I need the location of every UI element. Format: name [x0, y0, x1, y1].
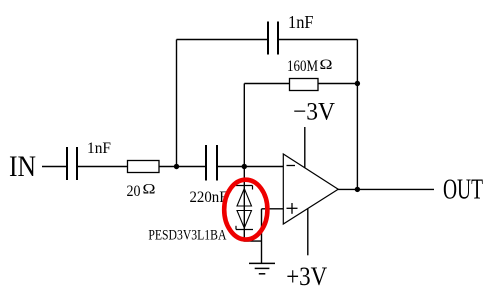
- wire feedback left vertical: [176, 40, 178, 167]
- wire C1 to R1: [77, 166, 128, 168]
- capacitor C1 1nF input: [67, 147, 77, 180]
- node junction A (feedback tap): [174, 164, 179, 169]
- ground: [249, 263, 275, 273]
- svg-text:1nF: 1nF: [288, 12, 314, 32]
- wire 160M branch left vertical: [243, 84, 245, 167]
- wire feedback right vertical: [356, 40, 358, 190]
- wire op-amp V- pin: [304, 127, 306, 168]
- diode D2 bottom (TVS) triangle: [237, 211, 252, 229]
- wire TVS bottom jog: [244, 230, 261, 242]
- wire R1 to C2: [159, 166, 206, 168]
- node junction D (output / feedback): [355, 187, 360, 192]
- svg-text:Ω: Ω: [320, 57, 333, 73]
- diode D1 top (TVS) triangle: [237, 189, 252, 207]
- svg-text:220nF: 220nF: [190, 189, 228, 206]
- resistor R1 20Ω: [128, 161, 160, 173]
- wire op-amp output: [338, 188, 434, 190]
- wire op-amp plus input horizontal: [262, 208, 284, 210]
- svg-text:IN: IN: [9, 150, 36, 183]
- wire feedback top right horizontal: [278, 39, 357, 41]
- op-amp minus sign: [287, 165, 296, 167]
- op-amp U1 triangle: [283, 154, 338, 224]
- diode D2 bottom (TVS) cathode bar: [236, 226, 253, 230]
- capacitor C3 1nF feedback: [268, 22, 278, 55]
- wire feedback top left horizontal: [177, 39, 269, 41]
- svg-text:Ω: Ω: [143, 182, 156, 198]
- wire 160M branch right horizontal: [318, 83, 357, 85]
- annotation red ellipse: [224, 180, 267, 240]
- svg-text:160M: 160M: [287, 58, 318, 75]
- op-amp plus sign: [287, 203, 298, 214]
- wire 160M branch left horizontal: [244, 83, 289, 85]
- wire op-amp V+ pin: [307, 209, 309, 256]
- wire C2 to op-amp minus input: [217, 166, 284, 168]
- node junction C (160M to right vertical): [355, 81, 360, 86]
- diode D1 top (TVS) cathode bar: [236, 186, 253, 190]
- wire plus input down to ground: [261, 209, 263, 264]
- svg-text:OUT: OUT: [443, 174, 483, 206]
- label 160MΩ: [287, 57, 333, 75]
- node junction B (TVS / 160M tap): [242, 164, 247, 169]
- wire TVS center vertical: [243, 167, 245, 230]
- label 20Ω: [127, 182, 156, 200]
- svg-text:20: 20: [127, 183, 141, 200]
- capacitor C2 220nF: [206, 145, 217, 181]
- svg-text:PESD3V3L1BA: PESD3V3L1BA: [148, 228, 226, 244]
- svg-text:+3V: +3V: [286, 261, 327, 291]
- resistor R2 160MΩ: [290, 79, 319, 91]
- wire IN lead: [42, 166, 67, 168]
- svg-text:1nF: 1nF: [87, 140, 111, 157]
- svg-text:−3V: −3V: [293, 99, 335, 126]
